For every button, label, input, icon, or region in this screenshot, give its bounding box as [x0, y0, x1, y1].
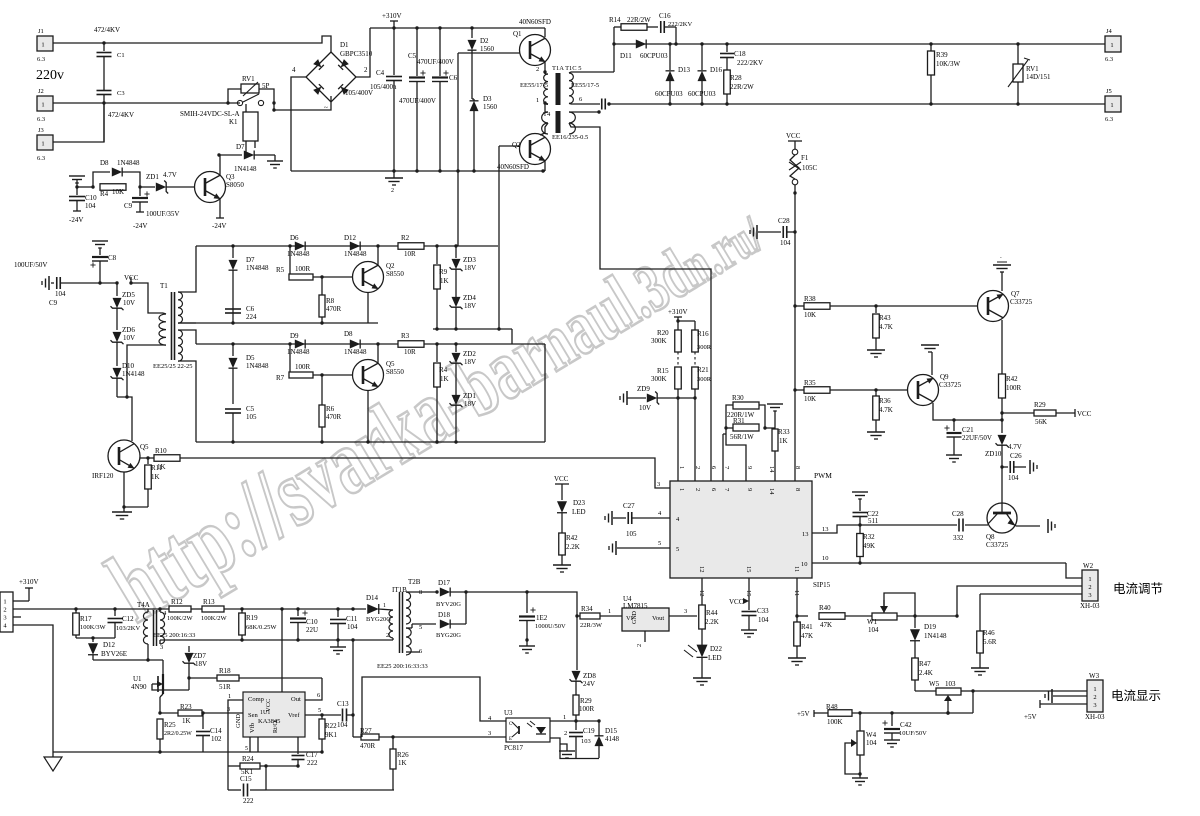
svg-text:F1: F1: [801, 154, 809, 162]
svg-text:D17: D17: [438, 579, 451, 587]
svg-text:ZD8: ZD8: [583, 672, 596, 680]
transistor Q2 driver: [353, 262, 384, 293]
zener ZD3: [455, 246, 457, 258]
svg-text:8: 8: [794, 466, 801, 469]
svg-text:D8: D8: [344, 330, 353, 338]
connector W2: [1082, 570, 1098, 601]
svg-text:C1: C1: [117, 52, 125, 59]
varistor RV1 output: [1017, 44, 1019, 64]
diode D17: [440, 588, 450, 597]
connector J4: [1105, 36, 1121, 52]
svg-text:104: 104: [868, 626, 879, 634]
svg-text:105/400n: 105/400n: [370, 83, 397, 91]
wire VCC row to T1: [131, 283, 163, 313]
resistor R44: [699, 605, 706, 629]
wire Q1 emitter to T3: [544, 62, 546, 74]
wire R35 to Q9 base: [830, 389, 908, 391]
wire con pin3 stub: [13, 616, 21, 618]
svg-text:10K: 10K: [804, 311, 816, 319]
resistor R4b: [436, 344, 438, 362]
ground C8: [92, 240, 108, 242]
connector J3: [37, 135, 53, 150]
capacitor C1: [103, 43, 105, 51]
svg-text:300K: 300K: [651, 375, 667, 383]
svg-text:1N4848: 1N4848: [246, 362, 269, 370]
svg-text:ZD7: ZD7: [193, 652, 206, 660]
potentiometer W5: [915, 690, 936, 692]
svg-text:1560: 1560: [480, 45, 495, 53]
resistor R36: [875, 390, 877, 396]
svg-text:J1: J1: [38, 28, 44, 35]
svg-text:R44: R44: [706, 609, 718, 617]
svg-text:BYV20G: BYV20G: [436, 601, 461, 608]
svg-text:R28: R28: [730, 74, 742, 82]
transformer T3 core: [556, 73, 561, 105]
svg-text:103: 103: [945, 680, 956, 688]
resistor R22: [321, 715, 323, 719]
svg-text:IRF120: IRF120: [92, 472, 114, 480]
svg-text:4.7K: 4.7K: [879, 323, 893, 331]
svg-text:10R: 10R: [404, 348, 416, 356]
svg-text:R38: R38: [804, 295, 816, 303]
svg-text:18V: 18V: [464, 264, 476, 272]
svg-text:Q7: Q7: [1011, 290, 1020, 298]
diode D6: [295, 242, 305, 251]
svg-text:R22: R22: [325, 722, 337, 730]
svg-text:2: 2: [1093, 694, 1096, 701]
potentiometer W4: [859, 713, 861, 731]
transformer T4 secondary: [569, 112, 575, 134]
wire Q2d collector: [367, 293, 369, 324]
wire W5 right node: [961, 690, 973, 692]
svg-text:1: 1: [383, 603, 386, 609]
svg-text:-24V: -24V: [212, 222, 226, 230]
svg-text:5: 5: [318, 707, 321, 714]
svg-text:EE55/17-5: EE55/17-5: [520, 82, 548, 89]
svg-text:100UF/35V: 100UF/35V: [146, 210, 179, 218]
svg-text:47K: 47K: [820, 621, 832, 629]
resistor R27: [353, 736, 362, 738]
resistor R31: [733, 424, 759, 431]
transistor Q2 main: [520, 134, 551, 165]
svg-text:104: 104: [347, 623, 358, 631]
resistor R5: [289, 246, 291, 277]
varistor RV1 input: [228, 89, 241, 103]
resistor R20: [677, 321, 679, 330]
svg-text:10K: 10K: [804, 395, 816, 403]
resistor R9: [436, 246, 438, 264]
diode D12 byv26e: [92, 638, 94, 642]
svg-text:104: 104: [337, 721, 348, 729]
potentiometer W1: [872, 613, 897, 620]
svg-text:D2: D2: [480, 37, 489, 45]
capacitor C22: [852, 491, 868, 493]
wire VCC to KA3845: [281, 609, 283, 692]
svg-text:R26: R26: [397, 751, 409, 759]
connector W3: [1087, 680, 1103, 712]
svg-text:6.3: 6.3: [37, 56, 45, 63]
U4 pin3 wire: [669, 615, 697, 617]
svg-text:R33: R33: [778, 428, 790, 436]
svg-text:R34: R34: [581, 605, 593, 613]
svg-text:BYG20G: BYG20G: [366, 616, 391, 623]
svg-text:4: 4: [292, 66, 296, 74]
svg-text:10R: 10R: [404, 250, 416, 258]
svg-text:R32: R32: [863, 533, 875, 541]
svg-text:R11: R11: [151, 464, 163, 472]
svg-text:470UF/400V: 470UF/400V: [399, 97, 436, 105]
svg-text:10V: 10V: [123, 299, 135, 307]
svg-text:2: 2: [391, 188, 394, 194]
svg-text:U3: U3: [504, 709, 513, 717]
svg-text:10: 10: [801, 561, 808, 568]
svg-text:D16: D16: [710, 66, 723, 74]
svg-text:电流调节: 电流调节: [1113, 582, 1163, 596]
transistor Q8: [987, 503, 1017, 533]
wire D12 to U1 drain: [93, 659, 163, 661]
svg-text:C12: C12: [122, 615, 134, 623]
svg-text:LM7815: LM7815: [623, 602, 648, 610]
svg-text:Q3: Q3: [226, 173, 235, 181]
svg-text:R9: R9: [439, 268, 448, 276]
wire Q2 base drive: [499, 145, 520, 147]
svg-text:2R2/0.25W: 2R2/0.25W: [164, 731, 192, 737]
svg-text:1: 1: [1110, 42, 1113, 49]
capacitor C11: [337, 609, 339, 617]
capacitor C5b: [225, 408, 241, 410]
ground R43: [867, 349, 885, 351]
resistor R47: [912, 658, 919, 680]
svg-text:SMIH-24VDC-SL-A: SMIH-24VDC-SL-A: [180, 110, 240, 118]
svg-text:ZD9: ZD9: [637, 385, 650, 393]
svg-text:R31: R31: [733, 417, 745, 425]
transformer T3 primary: [544, 74, 548, 104]
wire R30R31 left: [726, 405, 746, 481]
svg-text:18V: 18V: [464, 358, 476, 366]
series cap marker on J5 rail: [601, 99, 603, 110]
svg-text:+5V: +5V: [1024, 713, 1037, 721]
output rail bottom to J5: [609, 103, 1105, 105]
svg-text:104: 104: [1008, 474, 1019, 482]
svg-text:R4: R4: [439, 366, 448, 374]
connector J5: [1105, 96, 1121, 112]
svg-text:1K: 1K: [182, 717, 191, 725]
svg-text:C33: C33: [757, 607, 769, 615]
svg-text:BYV26E: BYV26E: [101, 650, 127, 658]
svg-text:R48: R48: [826, 703, 838, 711]
relay K1: [243, 112, 258, 141]
svg-text:3: 3: [1093, 702, 1096, 709]
ground C9b: [48, 276, 50, 290]
svg-text:1: 1: [41, 42, 44, 49]
svg-text:C33725: C33725: [939, 381, 962, 389]
wire Q5 source: [123, 472, 125, 507]
svg-text:2: 2: [694, 466, 701, 469]
wire gate row: [152, 684, 189, 690]
wire upper block top: [196, 245, 498, 247]
svg-text:3: 3: [3, 615, 6, 622]
svg-text:15: 15: [745, 566, 752, 573]
ground opto: [560, 744, 567, 751]
svg-text:105: 105: [626, 530, 637, 538]
resistor R29 100R: [573, 695, 579, 715]
svg-text:J5: J5: [1106, 88, 1112, 95]
svg-text:4.7V: 4.7V: [1008, 443, 1022, 451]
svg-text:10V: 10V: [639, 404, 651, 412]
ground Q9 top: [931, 352, 933, 375]
ground Q7 top: [1001, 272, 1003, 291]
svg-text:C27: C27: [623, 502, 635, 510]
top rail +310V: [370, 27, 545, 29]
svg-text:5: 5: [658, 540, 661, 547]
svg-text:C11: C11: [346, 615, 358, 623]
svg-text:10: 10: [822, 555, 829, 562]
zener ZD8: [572, 671, 581, 681]
svg-text:EE25 200:16:33: EE25 200:16:33: [153, 632, 195, 639]
svg-text:300R: 300R: [697, 344, 712, 351]
svg-text:2: 2: [564, 730, 567, 737]
svg-text:104: 104: [866, 739, 877, 747]
svg-text:+310V: +310V: [382, 12, 402, 20]
svg-text:R42: R42: [1006, 375, 1018, 383]
wire U1 source: [159, 697, 161, 713]
transformer T3 secondary: [569, 73, 573, 103]
svg-text:XH-03: XH-03: [1080, 602, 1100, 610]
resistor R35: [795, 389, 804, 391]
svg-text:5P: 5P: [262, 82, 270, 90]
svg-text:470R: 470R: [326, 413, 342, 421]
wire Q5d collector: [367, 391, 369, 443]
wire T2B pin8: [406, 591, 436, 593]
svg-text:BYG20G: BYG20G: [436, 632, 461, 639]
wire aux top rail: [13, 608, 171, 610]
svg-text:SIP15: SIP15: [813, 581, 831, 589]
capacitor C19: [575, 721, 577, 730]
wire feedback loop to opto: [362, 677, 506, 737]
svg-text:J3: J3: [38, 127, 44, 134]
ZD7 zener: [188, 646, 190, 652]
svg-text:104: 104: [55, 290, 66, 298]
svg-text:EE25 200:16:33:33: EE25 200:16:33:33: [377, 663, 428, 670]
diode D10: [113, 368, 122, 378]
svg-text:VCC: VCC: [786, 132, 801, 140]
svg-text:5: 5: [676, 546, 679, 553]
vertical link upper-lower: [511, 329, 513, 344]
svg-text:104: 104: [780, 239, 791, 247]
resistor R16: [694, 321, 696, 330]
capacitor C28b: [958, 519, 960, 532]
vertical lower right: [544, 344, 546, 442]
wire Q5d emitter: [377, 344, 379, 363]
resistor R18: [189, 677, 217, 679]
svg-text:100K/2W: 100K/2W: [201, 615, 228, 622]
svg-text:3: 3: [1088, 592, 1091, 599]
svg-text:R20: R20: [657, 329, 669, 337]
svg-text:C42: C42: [900, 721, 912, 729]
svg-text:3: 3: [160, 644, 163, 651]
svg-text:470R: 470R: [326, 305, 342, 313]
wire switch node to bridge AC2: [274, 96, 331, 110]
svg-text:C28: C28: [778, 217, 790, 225]
diode D19: [914, 616, 916, 628]
svg-text:R43: R43: [879, 314, 891, 322]
VCC label R29: [1074, 409, 1076, 417]
resistor R6: [319, 405, 325, 427]
resistor R25: [157, 719, 163, 739]
svg-text:D12: D12: [103, 641, 116, 649]
svg-text:60CPU03: 60CPU03: [688, 90, 716, 98]
svg-text:100R: 100R: [579, 705, 595, 713]
svg-text:1: 1: [1110, 102, 1113, 109]
wire Q9 emitter row: [933, 403, 1002, 420]
capacitor C10 aux: [297, 609, 299, 616]
R24 C15 loop: [228, 765, 240, 767]
capacitor C10 bias: [75, 185, 78, 188]
svg-text:6.3: 6.3: [37, 155, 45, 162]
svg-text:1N4848: 1N4848: [117, 159, 140, 167]
wire pin7: [723, 433, 726, 435]
svg-text:472/4KV: 472/4KV: [108, 111, 134, 119]
svg-text:C14: C14: [210, 727, 222, 735]
bridge rectifier D1: [306, 52, 356, 102]
diode D7b column: [232, 246, 234, 258]
svg-text:224: 224: [246, 313, 257, 321]
wire T4 secondary bottom down to PWM pin6: [569, 123, 711, 481]
svg-text:2.2K: 2.2K: [566, 543, 580, 551]
wire con pin1: [13, 600, 29, 602]
wire R17 C12 bottom: [76, 637, 115, 639]
svg-text:10V: 10V: [123, 334, 135, 342]
ground C26: [1029, 460, 1031, 474]
capacitor C14: [202, 713, 204, 729]
capacitor C9 bias: [139, 187, 141, 196]
diode D2: [471, 28, 473, 38]
ground R41: [788, 657, 806, 659]
svg-text:470UF/400V: 470UF/400V: [417, 58, 454, 66]
diode D8b: [350, 340, 360, 349]
svg-text:电流显示: 电流显示: [1111, 689, 1161, 703]
svg-text:13: 13: [802, 531, 809, 538]
svg-text:D7: D7: [246, 256, 255, 264]
svg-text:ZD4: ZD4: [463, 294, 476, 302]
svg-text:R41: R41: [801, 623, 813, 631]
IC U2 KA3845 box: [243, 692, 305, 737]
svg-text:Comp: Comp: [248, 696, 264, 703]
capacitor C21: [953, 420, 955, 431]
svg-text:C6: C6: [449, 74, 458, 82]
svg-text:S8550: S8550: [386, 270, 404, 278]
capacitor C3: [97, 90, 112, 92]
svg-text:11: 11: [793, 566, 800, 572]
svg-text:W2: W2: [1083, 562, 1094, 570]
W3 pin2 ground: [1051, 689, 1053, 703]
svg-text:68K/0.25W: 68K/0.25W: [246, 624, 277, 631]
svg-text:18V: 18V: [464, 400, 476, 408]
svg-text:C15: C15: [240, 775, 252, 783]
svg-text:Q2: Q2: [386, 262, 395, 270]
wire R46 to W2 pin3: [980, 593, 1082, 595]
svg-text:D13: D13: [678, 66, 691, 74]
svg-text:R15: R15: [657, 367, 669, 375]
svg-text:10K: 10K: [112, 188, 124, 196]
svg-text:E: E: [509, 737, 512, 742]
resistor R34: [575, 614, 578, 617]
svg-text:C3: C3: [117, 90, 125, 97]
output rail top to J4: [614, 43, 1105, 45]
svg-text:D12: D12: [344, 234, 357, 242]
svg-text:D3: D3: [483, 95, 492, 103]
svg-text:1: 1: [563, 714, 566, 721]
svg-text:Vout: Vout: [652, 615, 664, 622]
svg-text:14: 14: [768, 466, 775, 473]
diode D8 loop: [93, 172, 110, 187]
resistor R15: [675, 367, 682, 389]
wire Q3 collector to relay row: [219, 155, 221, 176]
svg-text:1: 1: [1088, 576, 1091, 583]
svg-text:ZD6: ZD6: [122, 326, 135, 334]
svg-text:105: 105: [246, 413, 257, 421]
svg-text:R23: R23: [180, 703, 192, 711]
svg-text:R21: R21: [697, 366, 709, 374]
svg-text:R4: R4: [100, 190, 109, 198]
svg-text:Vref: Vref: [288, 712, 300, 719]
svg-text:1N4148: 1N4148: [924, 632, 947, 640]
svg-text:103: 103: [581, 738, 591, 745]
svg-text:3: 3: [227, 706, 230, 713]
optocoupler U3 PC817: [506, 718, 550, 742]
resistor R32: [859, 525, 861, 533]
svg-text:Q8: Q8: [986, 533, 995, 541]
svg-text:VCC: VCC: [554, 475, 569, 483]
diode D9: [295, 340, 305, 349]
wire W5 node to +5V row: [972, 691, 974, 713]
resistor R40: [797, 615, 808, 617]
vertical Q2 base drive: [498, 146, 500, 329]
svg-text:22R/3W: 22R/3W: [580, 622, 603, 629]
ground C42: [884, 739, 900, 741]
wire R30R31 right: [759, 405, 775, 428]
svg-text:~: ~: [324, 104, 328, 112]
svg-text:R2: R2: [401, 234, 410, 242]
svg-text:ZD2: ZD2: [463, 350, 476, 358]
svg-text:22U: 22U: [306, 626, 318, 634]
svg-text:1N4848: 1N4848: [246, 264, 269, 272]
wire Q3 emitter -24V: [219, 199, 221, 219]
svg-text:4.7K: 4.7K: [879, 406, 893, 414]
wire +310V node: [678, 320, 695, 322]
resistor R12: [169, 606, 191, 612]
ground C33: [741, 629, 757, 631]
wire ZD8 column: [576, 616, 578, 670]
transistor Q7: [978, 291, 1009, 322]
svg-text:C10: C10: [85, 194, 97, 202]
svg-text:102: 102: [211, 735, 222, 743]
svg-text:9K1: 9K1: [325, 731, 338, 739]
svg-text:222/2KV: 222/2KV: [737, 59, 763, 67]
KA3845 bottom pins: [249, 737, 251, 752]
svg-text:6.3: 6.3: [37, 116, 45, 123]
svg-text:56K: 56K: [1035, 418, 1047, 426]
svg-text:3: 3: [488, 730, 491, 737]
capacitor C6b: [225, 308, 241, 310]
svg-text:W3: W3: [1089, 672, 1100, 680]
svg-text:R19: R19: [246, 614, 258, 622]
wire node353 down: [352, 640, 354, 715]
svg-text:D6: D6: [290, 234, 299, 242]
svg-text:R10: R10: [155, 447, 167, 455]
wire Q8 base row: [841, 524, 957, 526]
wire Q2d emitter: [377, 246, 379, 265]
